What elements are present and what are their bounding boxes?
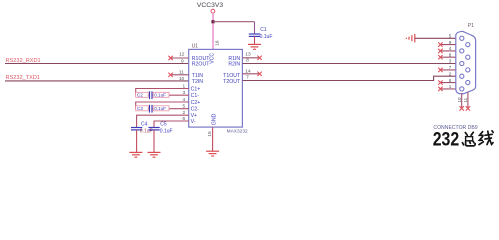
wire C4 to ground [136,130,138,153]
wire V- pin 6 to C5 [154,121,189,127]
svg-text:C2+: C2+ [191,100,201,106]
svg-text:R2OUT: R2OUT [192,62,210,68]
svg-text:P1: P1 [468,23,474,29]
DB9 stub pin 7 with X [440,69,465,71]
svg-text:T1IN: T1IN [192,73,203,79]
svg-text:7: 7 [449,65,452,70]
svg-text:0.1uF: 0.1uF [154,106,166,111]
wire T2OUT pin 7 to DB9 pin 2 [242,76,459,80]
svg-text:10: 10 [179,76,185,82]
DB9 pin 10 stub with X [461,93,463,107]
ground under C1 [248,44,261,49]
capacitor C5 [148,122,172,135]
svg-text:2: 2 [449,71,452,76]
pin 13 stub with no-connect X [242,57,259,59]
pin 14 stub with no-connect X [242,73,259,75]
svg-text:232: 232 [433,129,460,151]
wire C2+ pin 4 [136,102,189,109]
DB9 pin circles left column [460,36,464,91]
junction [211,20,214,23]
DB9 pin 11 stub with X [467,92,469,108]
ground under pin 15 [206,151,219,156]
svg-text:8: 8 [246,58,249,64]
pin names left column [191,56,211,125]
pin numbers right [245,52,251,81]
wire C1 upper stem [254,22,256,34]
wire VCC to C1 [213,21,255,23]
title glyph 总 [462,132,475,146]
svg-text:5: 5 [449,34,452,39]
capacitor C3 plates [149,105,151,113]
svg-text:C1-: C1- [191,93,200,99]
svg-text:V-: V- [191,119,196,125]
ground at DB9 pin 5 (rotated) [406,34,414,43]
svg-text:11: 11 [463,97,468,102]
DB9 stub pin 6 with X [440,82,465,84]
wire C1 lower stem [254,36,256,44]
svg-text:10: 10 [457,97,462,103]
svg-text:C2-: C2- [191,107,200,113]
svg-text:U1: U1 [192,44,199,50]
svg-text:12: 12 [179,51,185,57]
C3 designator box [136,106,149,111]
svg-text:C4: C4 [141,122,148,128]
svg-text:C1: C1 [260,27,267,33]
svg-text:C3: C3 [137,106,143,111]
svg-text:C2: C2 [137,93,143,98]
svg-text:0.1uF: 0.1uF [154,93,166,98]
wire C2- pin 5 with capacitor C3 in series [136,108,149,110]
svg-text:T2OUT: T2OUT [223,79,241,85]
svg-text:0.1uF: 0.1uF [260,34,273,40]
wire GND pin 15 [212,127,214,151]
svg-text:9: 9 [449,40,452,45]
svg-text:4: 4 [449,46,452,51]
svg-text:3: 3 [449,59,452,64]
wire C5 to ground [153,130,155,153]
DB9 stub pin 1 with X [440,88,459,90]
svg-text:C5: C5 [160,122,167,128]
title glyph 线 [479,131,493,145]
wire R2IN pin 8 to DB9 pin 3 [242,63,459,65]
pin numbers left [179,51,186,122]
wire RS232_RXD1 to pin 9 [5,63,189,65]
svg-text:R2IN: R2IN [228,62,240,68]
wire VCC vertical to pin 16 [212,13,214,49]
ground under C4 [129,152,142,157]
svg-text:6: 6 [449,78,452,83]
wire C1- pin 3 with capacitor C2 in series [136,94,149,96]
C2 value box [153,92,169,97]
DB9 stub pin 9 with X [440,44,465,46]
wire ground to DB9 pin 5 [415,37,460,39]
svg-text:VCC: VCC [209,53,215,64]
svg-text:C1+: C1+ [191,86,201,92]
DB9 pin numbers [449,34,452,90]
svg-text:GND: GND [212,113,218,125]
svg-text:16: 16 [214,40,220,46]
svg-text:8: 8 [449,52,452,57]
svg-text:MAX3232: MAX3232 [227,129,248,135]
wire RS232_TXD1 to pin 10 [5,80,189,82]
svg-text:7: 7 [246,74,249,80]
svg-text:T2IN: T2IN [192,79,203,85]
pin 12 stub with no-connect X [171,57,189,59]
pin names right column [223,56,241,85]
capacitor C1 [249,27,273,40]
ground under C5 [148,152,161,157]
connector P1 DB9 body [456,31,476,93]
capacitor C2 plates [149,91,151,99]
wire C1+ pin 1 [136,89,189,96]
DB9 pin circles right column [466,43,470,85]
svg-text:9: 9 [181,59,184,65]
C3 value box [153,106,169,111]
op IC U1 MAX3232 box [189,49,243,127]
svg-text:T1OUT: T1OUT [223,73,241,79]
power port VCC3V3 [197,2,224,13]
C2 designator box [136,92,149,97]
svg-text:VCC3V3: VCC3V3 [197,2,224,9]
svg-text:0.1uF: 0.1uF [160,129,173,135]
pin 11 stub with no-connect X [171,74,189,76]
svg-text:RS232_TXD1: RS232_TXD1 [6,75,41,81]
DB9 stub pin 8 with X [440,56,465,58]
svg-text:13: 13 [245,52,251,58]
svg-text:1: 1 [449,84,452,89]
DB9 stub pin 4 with X [440,50,459,52]
capacitor C4 [131,122,153,135]
wire V+ pin 2 to C4 [137,115,189,127]
